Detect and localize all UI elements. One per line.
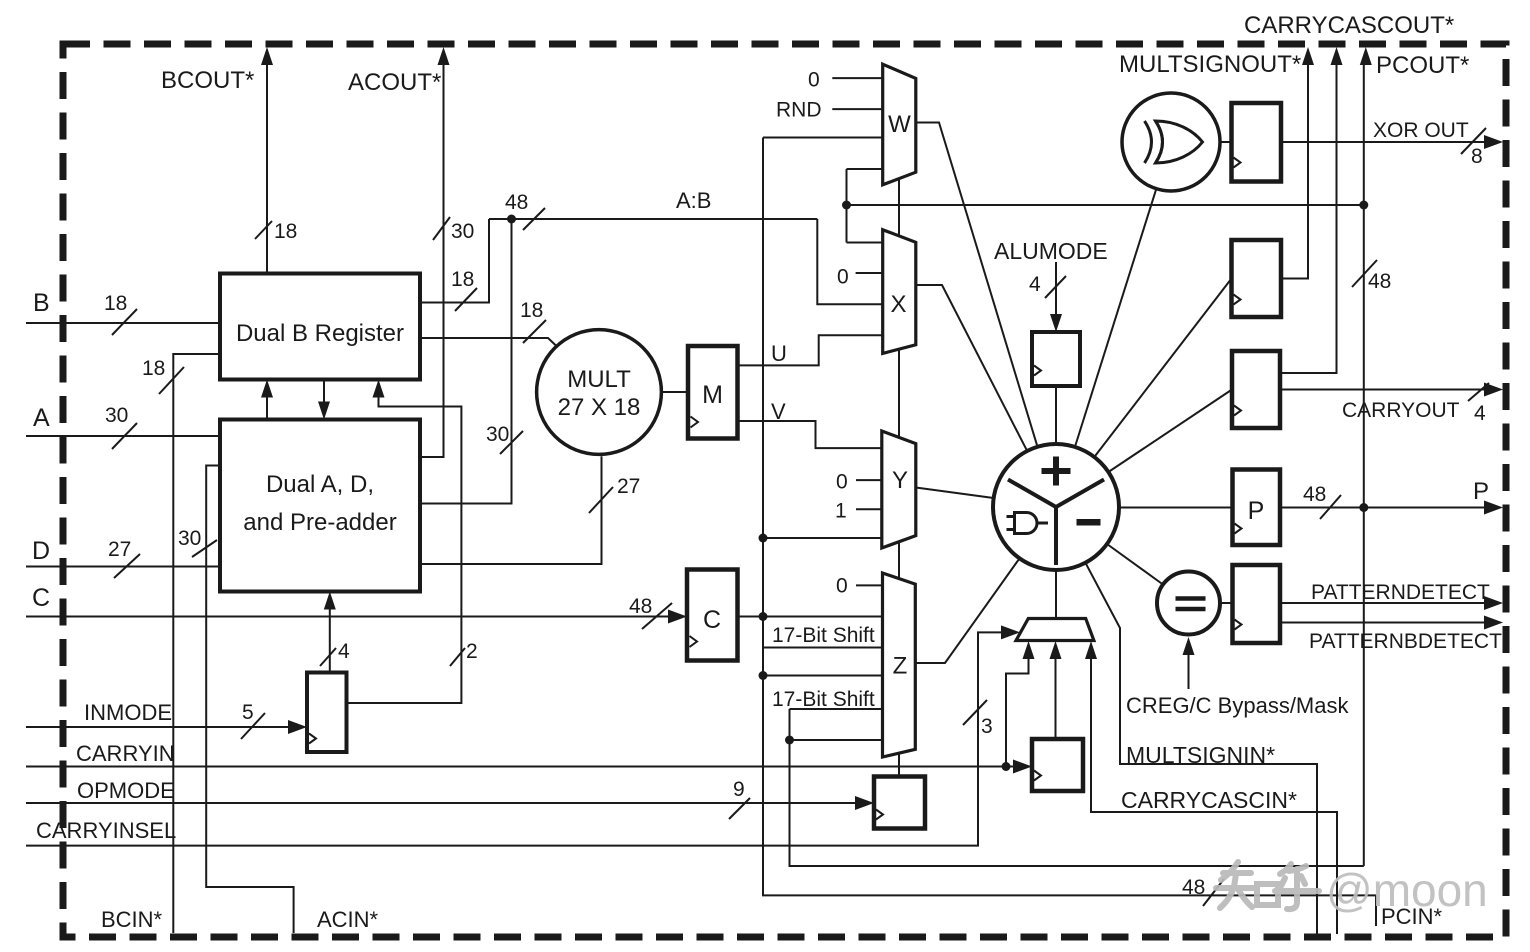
wire BCIN vertical to Dual B Register bbox=[173, 354, 220, 933]
svg-text:18: 18 bbox=[520, 299, 543, 322]
wire ACIN from bottom border to Dual A,D bbox=[206, 466, 293, 934]
buswidth slash ACOUT 30 bbox=[433, 217, 450, 240]
wire OPMODE register to Z mux select bbox=[898, 753, 900, 776]
svg-text:CARRYCASCIN*: CARRYCASCIN* bbox=[1121, 787, 1297, 813]
svg-text:18: 18 bbox=[142, 357, 165, 380]
svg-text:CARRYOUT: CARRYOUT bbox=[1342, 399, 1460, 422]
clock pin PATTERNDETECT register bbox=[1235, 620, 1242, 630]
XOR gate symbol bbox=[1145, 121, 1152, 163]
wire A path up to A:B bus bbox=[420, 219, 512, 504]
svg-text:PCOUT*: PCOUT* bbox=[1376, 52, 1469, 79]
wire PCOUT / P feedback vertical bbox=[1363, 63, 1365, 866]
wire B register feedback down-arrow bbox=[323, 380, 325, 405]
wire MULTSIGNIN into ALU bbox=[1085, 563, 1317, 934]
buswidth slash PCOUT 48 bbox=[1352, 260, 1377, 287]
buswidth slash D 27 bbox=[114, 554, 140, 578]
wire CARRYIN register to carry mux bbox=[1055, 653, 1057, 739]
svg-text:48: 48 bbox=[505, 191, 528, 214]
node P output tap bbox=[1359, 503, 1368, 512]
node CARRYIN branch bbox=[1002, 762, 1011, 771]
buswidth slash INMODE 4 bbox=[320, 648, 336, 666]
register CARRYOUT bbox=[1232, 351, 1280, 428]
buswidth slash INMODE 5 bbox=[241, 713, 265, 739]
svg-text:XOR OUT: XOR OUT bbox=[1373, 119, 1469, 142]
wire P feedback vertical at W/X muxes bbox=[846, 169, 848, 243]
svg-text:18: 18 bbox=[274, 220, 297, 243]
svg-text:30: 30 bbox=[178, 527, 201, 550]
svg-text:MULTSIGNIN*: MULTSIGNIN* bbox=[1126, 742, 1275, 768]
buswidth slash BCOUT 18 bbox=[255, 221, 272, 239]
arrowhead OPMODE into register bbox=[855, 796, 874, 810]
arrowhead MULTSIGNOUT bbox=[1302, 47, 1314, 65]
wire Y mux constant 0 stub bbox=[856, 479, 882, 481]
wire CARRYOUT output bbox=[1280, 389, 1486, 391]
buswidth slash B to MULT 18 bbox=[523, 320, 546, 343]
ALU minus symbol bbox=[1077, 519, 1101, 526]
wire ALU to MULTSIGNOUT register bbox=[1094, 279, 1231, 458]
svg-text:0: 0 bbox=[808, 69, 820, 92]
svg-text:Dual A, D,: Dual A, D, bbox=[266, 471, 374, 498]
clock pin P register bbox=[1235, 524, 1242, 534]
wire ALU result to P register bbox=[1119, 507, 1233, 509]
wire B input bbox=[26, 322, 220, 324]
clock pin CARRYIN register bbox=[1034, 771, 1041, 781]
wire INMODE input bbox=[26, 726, 291, 728]
svg-text:U: U bbox=[771, 341, 787, 366]
buswidth slash INMODE 2 bbox=[450, 648, 465, 666]
mux W bbox=[883, 64, 916, 185]
wire Y mux constant 1 stub bbox=[856, 508, 882, 510]
wire ALU to XOR block bbox=[1075, 189, 1156, 447]
arrowhead ACOUT bbox=[438, 47, 450, 65]
wire C bus into Y mux bbox=[763, 537, 882, 539]
wire P output bbox=[1280, 507, 1486, 509]
register MULTSIGNOUT bbox=[1232, 240, 1282, 317]
buswidth slash OPMODE 9 bbox=[729, 798, 750, 819]
register INMODE bbox=[307, 673, 347, 753]
wire PCIN into Z mux bbox=[763, 675, 883, 677]
node P feedback at PCOUT bbox=[1359, 201, 1368, 210]
wire U partial product bbox=[738, 335, 883, 365]
buswidth slash PCIN 48 bbox=[1203, 879, 1224, 906]
arrowhead CARRYIN into register bbox=[1013, 760, 1032, 774]
svg-text:CARRYCASCOUT*: CARRYCASCOUT* bbox=[1244, 12, 1454, 39]
wire Y mux output to ALU bbox=[916, 488, 994, 499]
wire BCOUT to top border bbox=[266, 63, 268, 274]
svg-text:0: 0 bbox=[836, 471, 848, 494]
wire A input bbox=[26, 435, 220, 437]
wire CARRYINSEL input and riser to carry mux select bbox=[26, 632, 1004, 845]
svg-text:30: 30 bbox=[451, 220, 474, 243]
buswidth slash ALUMODE 4 bbox=[1045, 276, 1066, 298]
buswidth slash B 18 bbox=[112, 309, 137, 335]
wire CARRYIN input bbox=[26, 766, 1016, 768]
svg-text:BCOUT*: BCOUT* bbox=[161, 67, 254, 94]
XOR block circle bbox=[1122, 93, 1220, 191]
svg-text:4: 4 bbox=[1474, 402, 1486, 425]
clock pin XOR register bbox=[1234, 158, 1241, 168]
svg-text:X: X bbox=[890, 291, 906, 318]
ALU circle bbox=[993, 444, 1119, 570]
wire P feedback into Z mux bbox=[790, 739, 883, 741]
wire PCIN 17-bit shift into Z mux bbox=[763, 647, 883, 649]
svg-text:30: 30 bbox=[486, 423, 509, 446]
svg-text:P: P bbox=[1248, 497, 1265, 525]
svg-text:RND: RND bbox=[776, 99, 822, 122]
svg-text:CARRYINSEL: CARRYINSEL bbox=[36, 818, 176, 843]
wire P 17-bit shift into Z mux bbox=[790, 708, 883, 710]
clock pin M register bbox=[691, 417, 699, 428]
wire CARRYCASCOUT to top border bbox=[1280, 63, 1337, 373]
wire PATTERNBDETECT output bbox=[1280, 622, 1486, 624]
svg-text:5: 5 bbox=[242, 701, 254, 724]
svg-text:C: C bbox=[703, 606, 721, 634]
svg-text:M: M bbox=[702, 381, 723, 409]
wire V partial product bbox=[738, 421, 882, 448]
svg-text:27: 27 bbox=[617, 475, 640, 498]
ALU divider arms bbox=[1008, 480, 1104, 566]
svg-text:17-Bit Shift: 17-Bit Shift bbox=[772, 624, 875, 647]
svg-text:27 X 18: 27 X 18 bbox=[558, 394, 641, 421]
wire CREG/C bypass arrow into comparator bbox=[1188, 649, 1190, 689]
svg-text:V: V bbox=[771, 399, 786, 424]
wire D input bbox=[26, 566, 220, 568]
wire multiplier to M register bbox=[662, 391, 689, 393]
carry mux bbox=[1016, 619, 1094, 641]
svg-text:Z: Z bbox=[893, 653, 908, 680]
svg-text:W: W bbox=[888, 111, 911, 138]
buswidth slash A 30 bbox=[112, 423, 137, 449]
buswidth slash P 48 bbox=[1320, 495, 1341, 519]
arrowhead ALUMODE into register bbox=[1050, 314, 1062, 332]
svg-text:9: 9 bbox=[733, 778, 745, 801]
svg-text:48: 48 bbox=[629, 595, 652, 618]
arrowhead pre-adder to B register bbox=[261, 380, 273, 398]
svg-text:A: A bbox=[33, 404, 50, 432]
wire Z mux output to ALU bbox=[915, 558, 1019, 663]
wire carry mux output to ALU bbox=[1055, 570, 1057, 619]
wire INMODE register to Dual A,D bbox=[329, 607, 331, 673]
arrowhead INMODE into register bbox=[288, 720, 307, 734]
wire W mux RND stub bbox=[832, 108, 882, 110]
node P feedback to Z bbox=[785, 736, 794, 745]
arrowhead PCOUT bbox=[1360, 47, 1372, 65]
buswidth slash C 48 bbox=[642, 603, 672, 629]
arrowhead PATTERNBDETECT bbox=[1484, 616, 1503, 630]
svg-text:17-Bit Shift: 17-Bit Shift bbox=[772, 688, 875, 711]
svg-text:27: 27 bbox=[108, 538, 131, 561]
wire B register output step to A:B bus bbox=[420, 219, 489, 303]
clock pin INMODE register bbox=[309, 734, 316, 744]
arrowhead carry mux input centre bbox=[1050, 641, 1062, 659]
mux X bbox=[883, 230, 916, 354]
ALU plus symbol bbox=[1042, 468, 1071, 474]
wire mux select chain W-X bbox=[898, 179, 900, 236]
wire C / PCIN vertical bus bbox=[763, 138, 1376, 896]
clock pin MULTSIGNOUT register bbox=[1234, 295, 1241, 305]
svg-text:3: 3 bbox=[981, 715, 993, 738]
wire mux select chain Y-Z bbox=[898, 542, 900, 579]
clock pin OPMODE register bbox=[876, 810, 883, 820]
register OPMODE bbox=[874, 777, 925, 829]
wire C input to C register bbox=[26, 616, 671, 618]
svg-text:1: 1 bbox=[835, 500, 847, 523]
svg-text:4: 4 bbox=[338, 640, 350, 663]
wire C bus into W mux bbox=[763, 137, 883, 139]
arrowhead carry mux input left bbox=[1023, 641, 1035, 659]
wire W mux output to ALU bbox=[916, 123, 1038, 447]
wire CARRYIN bypass branch to carry mux bbox=[1006, 653, 1029, 767]
arrowhead carry mux input right (CARRYCASCIN) bbox=[1085, 641, 1097, 659]
wire ALU to pattern comparator bbox=[1107, 544, 1163, 585]
wire B register output to multiplier bbox=[420, 338, 558, 347]
watermark zhihu glyphs bbox=[1216, 862, 1319, 909]
buswidth slash A to MULT 27 bbox=[589, 487, 613, 513]
multiplier MULT 27x18 bbox=[537, 330, 662, 455]
svg-text:CARRYIN: CARRYIN bbox=[76, 741, 175, 766]
buswidth slash B out 18 bbox=[455, 288, 477, 311]
arrowhead BCOUT bbox=[261, 47, 273, 65]
wire Z mux constant 0 stub bbox=[856, 584, 883, 586]
wire ALUMODE register to ALU bbox=[1055, 386, 1057, 444]
wire P feedback into X mux bbox=[847, 242, 883, 244]
svg-text:4: 4 bbox=[1029, 273, 1041, 296]
svg-text:CREG/C Bypass/Mask: CREG/C Bypass/Mask bbox=[1126, 693, 1349, 718]
svg-text:C: C bbox=[32, 584, 50, 612]
svg-text:D: D bbox=[32, 537, 50, 565]
clock pin ALUMODE register bbox=[1034, 366, 1041, 376]
wire A:B bus horizontal bbox=[489, 218, 817, 220]
svg-text:MULTSIGNOUT*: MULTSIGNOUT* bbox=[1119, 51, 1301, 78]
clock pin CARRYOUT register bbox=[1234, 406, 1241, 416]
wire C register output to Z mux bbox=[738, 616, 883, 618]
node C bus to Y mux bbox=[759, 534, 768, 543]
svg-text:BCIN*: BCIN* bbox=[101, 907, 163, 932]
buswidth slash CARRYINSEL 3 bbox=[963, 700, 987, 725]
svg-text:48: 48 bbox=[1368, 270, 1391, 293]
svg-text:18: 18 bbox=[104, 292, 127, 315]
register CARRYIN bbox=[1032, 739, 1083, 791]
svg-text:2: 2 bbox=[466, 640, 478, 663]
svg-text:30: 30 bbox=[105, 404, 128, 427]
buswidth slash CARRYOUT 4 bbox=[1468, 383, 1489, 401]
svg-text:8: 8 bbox=[1471, 145, 1483, 168]
wire MULTSIGNOUT to top border bbox=[1281, 63, 1308, 279]
arrowhead B select riser bbox=[373, 380, 385, 398]
svg-text:and Pre-adder: and Pre-adder bbox=[243, 509, 396, 536]
wire W mux constant 0 stub bbox=[832, 77, 882, 79]
svg-text:P: P bbox=[1473, 478, 1489, 505]
arrowhead CARRYINSEL into carry mux bbox=[1001, 625, 1020, 639]
wire OPMODE input bbox=[26, 802, 858, 804]
svg-text:PATTERNDETECT: PATTERNDETECT bbox=[1311, 581, 1490, 604]
buswidth slash A:B 48 bbox=[523, 208, 545, 230]
register PATTERNDETECT bbox=[1233, 565, 1281, 643]
wire pre-adder to B register up-arrow bbox=[266, 395, 268, 420]
node P feedback at W/X bbox=[842, 201, 851, 210]
svg-text:MULT: MULT bbox=[567, 366, 631, 393]
arrowhead C input into C register bbox=[668, 610, 687, 624]
wire XOR OUT output bbox=[1281, 141, 1486, 143]
wire ALU to carry register bbox=[1108, 390, 1232, 473]
svg-text:Dual B Register: Dual B Register bbox=[236, 320, 404, 347]
buswidth slash ACIN 30 bbox=[192, 540, 217, 557]
wire P feedback into W mux bbox=[847, 168, 883, 170]
clock pin C register bbox=[690, 636, 698, 647]
block Dual B Register bbox=[220, 274, 420, 380]
buswidth slash A to A:B 30 bbox=[500, 431, 523, 454]
wire ALUMODE input bbox=[1055, 262, 1057, 319]
svg-text:18: 18 bbox=[451, 268, 474, 291]
wire X mux constant 0 stub bbox=[856, 272, 883, 274]
arrowhead CARRYCASCOUT bbox=[1331, 47, 1343, 65]
svg-text:0: 0 bbox=[837, 266, 849, 289]
svg-text:ACIN*: ACIN* bbox=[317, 907, 379, 932]
wire mux select chain X-Y bbox=[898, 349, 900, 437]
wire ACOUT from Dual A,D to top border bbox=[420, 63, 444, 457]
buswidth slash XOR OUT 8 bbox=[1461, 128, 1486, 154]
wire PATTERNDETECT output bbox=[1280, 602, 1486, 604]
svg-text:A:B: A:B bbox=[676, 188, 711, 213]
svg-text:INMODE: INMODE bbox=[84, 700, 172, 725]
arrowhead P output bbox=[1484, 501, 1503, 515]
svg-text:Y: Y bbox=[892, 467, 908, 494]
svg-text:@moon: @moon bbox=[1326, 864, 1488, 916]
comparator equals symbol bbox=[1176, 599, 1206, 610]
arrowhead CARRYOUT bbox=[1484, 383, 1503, 397]
register C bbox=[687, 570, 738, 661]
node C register output bbox=[759, 612, 768, 621]
arrowhead B register down into pre-adder bbox=[318, 402, 330, 420]
register XOR output bbox=[1232, 103, 1282, 182]
svg-text:0: 0 bbox=[836, 575, 848, 598]
wire CARRYCASCIN into carry mux bbox=[1091, 653, 1337, 934]
wire P feedback horizontal bbox=[847, 204, 1364, 206]
buswidth slash BCIN 18 bbox=[159, 367, 184, 394]
arrowhead INMODE into Dual A,D bbox=[324, 592, 336, 610]
wire A:B into X mux bbox=[817, 219, 882, 304]
svg-text:48: 48 bbox=[1303, 483, 1326, 506]
arrowhead XOR OUT bbox=[1484, 135, 1503, 149]
wire X mux output to ALU bbox=[916, 285, 1028, 451]
node A:B join bbox=[507, 215, 516, 224]
wire P feedback riser to Z mux bbox=[790, 709, 1364, 866]
block Dual A, D and Pre-adder bbox=[220, 420, 420, 592]
svg-text:48: 48 bbox=[1182, 876, 1205, 899]
ALU logic gate symbol bbox=[1015, 513, 1038, 534]
wire A,D output to multiplier bbox=[420, 456, 602, 564]
mux Y bbox=[882, 431, 916, 548]
svg-text:B: B bbox=[33, 289, 50, 317]
arrowhead CREG bypass into comparator bbox=[1183, 637, 1195, 655]
mux Z bbox=[883, 573, 916, 757]
register P bbox=[1233, 470, 1281, 546]
svg-text:OPMODE: OPMODE bbox=[77, 778, 175, 803]
pattern comparator circle bbox=[1157, 572, 1220, 635]
register M bbox=[688, 346, 738, 439]
arrowhead PATTERNDETECT bbox=[1484, 596, 1503, 610]
wire INMODE B-select to Dual B Register bbox=[347, 395, 462, 703]
wire PCIN entry tick bbox=[1375, 895, 1377, 926]
register ALUMODE bbox=[1032, 332, 1080, 386]
wire XOR block to XOR register bbox=[1220, 141, 1232, 143]
svg-text:ACOUT*: ACOUT* bbox=[348, 69, 441, 96]
wire comparator to pattern register bbox=[1220, 602, 1233, 604]
node PCIN tap bbox=[759, 671, 768, 680]
svg-text:PATTERNBDETECT: PATTERNBDETECT bbox=[1309, 630, 1502, 653]
svg-text:ALUMODE: ALUMODE bbox=[994, 238, 1108, 264]
